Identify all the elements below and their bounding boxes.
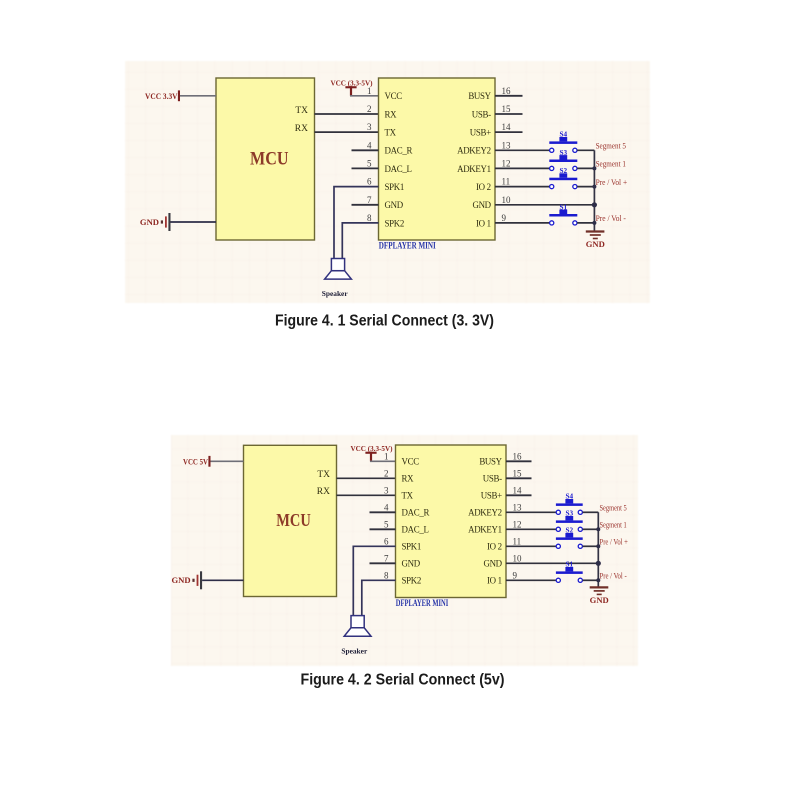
svg-text:GND: GND bbox=[402, 559, 421, 569]
stub wire DFPlayer pin 15 (figure 2) bbox=[506, 477, 532, 479]
pushbutton S1 (figure 2) bbox=[556, 567, 583, 582]
svg-text:ADKEY1: ADKEY1 bbox=[457, 164, 491, 174]
svg-text:15: 15 bbox=[502, 104, 512, 114]
wire pushbutton S1 to bus (figure 2) bbox=[583, 579, 599, 581]
svg-text:6: 6 bbox=[384, 536, 389, 546]
wire DFPlayer pin to pushbutton S1 (figure 1) bbox=[495, 222, 549, 224]
pushbutton S3 (figure 1) bbox=[549, 155, 577, 170]
svg-text:DFPLAYER MINI: DFPLAYER MINI bbox=[379, 241, 436, 251]
svg-text:5: 5 bbox=[384, 519, 389, 529]
svg-text:16: 16 bbox=[513, 451, 523, 461]
svg-text:9: 9 bbox=[513, 570, 518, 580]
schematic sheet background (figure 2) bbox=[171, 435, 638, 666]
wire SPK1 to speaker (figure 1) bbox=[334, 187, 379, 259]
stub wire DFPlayer pin 7 (figure 2) bbox=[370, 562, 396, 564]
DFPlayer Mini module block (figure 2) bbox=[396, 445, 507, 598]
svg-text:Pre / Vol -: Pre / Vol - bbox=[600, 572, 627, 581]
svg-text:8: 8 bbox=[384, 570, 389, 580]
svg-text:15: 15 bbox=[513, 468, 523, 478]
svg-text:ADKEY2: ADKEY2 bbox=[457, 146, 491, 156]
svg-text:IO 1: IO 1 bbox=[476, 218, 491, 228]
junction dot bus row pin 10 (figure 1) bbox=[592, 202, 597, 207]
stub wire DFPlayer pin 5 (figure 1) bbox=[352, 167, 379, 169]
svg-text:7: 7 bbox=[367, 195, 372, 205]
stub wire DFPlayer pin 4 (figure 2) bbox=[370, 511, 396, 513]
svg-text:MCU: MCU bbox=[250, 148, 289, 169]
svg-text:SPK2: SPK2 bbox=[385, 218, 405, 228]
wire pushbutton S2 to bus (figure 1) bbox=[577, 186, 594, 188]
svg-text:TX: TX bbox=[295, 106, 308, 116]
junction dot bus row pin 9 (figure 2) bbox=[596, 578, 600, 582]
svg-text:Speaker: Speaker bbox=[341, 646, 368, 655]
svg-text:GND: GND bbox=[483, 559, 502, 569]
wire SPK2 to speaker (figure 1) bbox=[342, 223, 378, 259]
wire pushbutton S1 to bus (figure 1) bbox=[577, 222, 594, 224]
svg-text:TX: TX bbox=[402, 491, 414, 501]
pushbutton S4 (figure 1) bbox=[549, 137, 577, 152]
svg-text:Segment 1: Segment 1 bbox=[600, 521, 627, 530]
svg-text:DAC_L: DAC_L bbox=[385, 164, 412, 174]
ground bus wire (figure 2) bbox=[597, 512, 599, 587]
svg-text:MCU: MCU bbox=[276, 510, 311, 530]
stub wire DFPlayer pin 14 (figure 2) bbox=[506, 494, 532, 496]
svg-text:TX: TX bbox=[385, 128, 397, 138]
wire MCU RX to DFPlayer pin 3 (figure 2) bbox=[337, 494, 396, 496]
wire MCU RX to DFPlayer pin 3 (figure 1) bbox=[315, 131, 379, 133]
svg-text:S4: S4 bbox=[566, 493, 574, 501]
svg-text:Speaker: Speaker bbox=[322, 289, 349, 298]
svg-text:S1: S1 bbox=[566, 561, 574, 569]
wire DFPlayer pin 10 GND to bus (figure 1) bbox=[495, 204, 594, 206]
svg-text:USB+: USB+ bbox=[481, 491, 502, 501]
svg-text:RX: RX bbox=[317, 487, 330, 497]
wire DFPlayer pin to pushbutton S2 (figure 1) bbox=[495, 186, 549, 188]
wire MCU TX to DFPlayer pin 2 (figure 2) bbox=[337, 477, 396, 479]
wire VCC to MCU (figure 1) bbox=[180, 95, 216, 97]
stub wire DFPlayer pin 4 (figure 1) bbox=[352, 149, 379, 151]
svg-text:RX: RX bbox=[385, 109, 398, 119]
svg-text:GND: GND bbox=[140, 217, 159, 227]
svg-text:VCC 3.3V: VCC 3.3V bbox=[145, 92, 178, 101]
wire SPK2 to speaker (figure 2) bbox=[362, 580, 396, 615]
wire VCC port to DFPlayer pin 1 (figure 1) bbox=[350, 95, 379, 97]
wire pushbutton S3 to bus (figure 2) bbox=[583, 528, 599, 530]
svg-text:VCC: VCC bbox=[402, 457, 420, 467]
ground symbol at bus (figure 2) bbox=[590, 587, 609, 594]
svg-text:3: 3 bbox=[367, 122, 372, 132]
svg-text:13: 13 bbox=[502, 140, 512, 150]
speaker LS (figure 1) bbox=[325, 259, 352, 280]
svg-text:GND: GND bbox=[171, 575, 190, 585]
svg-text:SPK2: SPK2 bbox=[402, 576, 422, 586]
svg-text:GND: GND bbox=[586, 239, 605, 249]
svg-text:S1: S1 bbox=[560, 203, 568, 211]
svg-text:Figure 4. 2 Serial Connect (5v: Figure 4. 2 Serial Connect (5v) bbox=[301, 671, 505, 688]
wire pushbutton S2 to bus (figure 2) bbox=[583, 545, 599, 547]
svg-text:11: 11 bbox=[513, 536, 522, 546]
junction dot bus row pin 11 (figure 2) bbox=[596, 544, 600, 548]
svg-text:S4: S4 bbox=[560, 131, 568, 139]
svg-text:1: 1 bbox=[367, 86, 372, 96]
svg-text:14: 14 bbox=[502, 122, 512, 132]
wire DFPlayer pin 10 GND to bus (figure 2) bbox=[506, 562, 598, 564]
ground bus wire (figure 1) bbox=[593, 150, 595, 231]
DFPlayer Mini module block (figure 1) bbox=[379, 78, 496, 240]
stub wire DFPlayer pin 15 (figure 1) bbox=[495, 113, 523, 115]
svg-text:IO 2: IO 2 bbox=[476, 182, 491, 192]
schematic sheet background (figure 1) bbox=[125, 61, 650, 303]
junction dot bus row pin 12 (figure 1) bbox=[592, 166, 596, 170]
wire GND to MCU (figure 2) bbox=[202, 579, 243, 581]
pushbutton S1 (figure 1) bbox=[549, 210, 577, 225]
wire DFPlayer pin to pushbutton S4 (figure 2) bbox=[506, 511, 556, 513]
svg-text:SPK1: SPK1 bbox=[402, 542, 422, 552]
svg-text:2: 2 bbox=[367, 104, 372, 114]
svg-text:S3: S3 bbox=[560, 149, 568, 157]
wire DFPlayer pin to pushbutton S3 (figure 1) bbox=[495, 167, 549, 169]
stub wire DFPlayer pin 16 (figure 2) bbox=[506, 460, 532, 462]
power port VCC (3.3-5V) (figure 2) bbox=[351, 444, 393, 461]
svg-text:Pre / Vol +: Pre / Vol + bbox=[596, 178, 628, 187]
svg-text:Segment 1: Segment 1 bbox=[596, 160, 626, 169]
svg-text:S2: S2 bbox=[566, 527, 574, 535]
junction dot bus row pin 9 (figure 1) bbox=[592, 221, 596, 225]
svg-text:ADKEY1: ADKEY1 bbox=[468, 525, 502, 535]
svg-text:ADKEY2: ADKEY2 bbox=[468, 508, 502, 518]
svg-text:BUSY: BUSY bbox=[468, 91, 491, 101]
svg-text:SPK1: SPK1 bbox=[385, 182, 405, 192]
MCU block (figure 1) bbox=[216, 78, 315, 240]
wire DFPlayer pin to pushbutton S1 (figure 2) bbox=[506, 579, 556, 581]
svg-text:13: 13 bbox=[513, 502, 523, 512]
power port GND at MCU (figure 1) bbox=[140, 213, 171, 231]
svg-text:USB-: USB- bbox=[472, 109, 491, 119]
svg-text:GND: GND bbox=[385, 200, 404, 210]
MCU block (figure 2) bbox=[244, 445, 337, 596]
svg-text:VCC 5V: VCC 5V bbox=[183, 458, 208, 467]
svg-text:4: 4 bbox=[384, 502, 389, 512]
svg-text:USB-: USB- bbox=[483, 474, 502, 484]
svg-text:11: 11 bbox=[502, 177, 511, 187]
svg-text:Segment 5: Segment 5 bbox=[596, 142, 626, 151]
svg-text:Segment 5: Segment 5 bbox=[600, 504, 627, 513]
svg-text:8: 8 bbox=[367, 213, 372, 223]
svg-text:DFPLAYER MINI: DFPLAYER MINI bbox=[396, 599, 449, 609]
power port GND at MCU (figure 2) bbox=[171, 571, 202, 589]
speaker LS (figure 2) bbox=[344, 616, 371, 637]
svg-text:5: 5 bbox=[367, 158, 372, 168]
svg-text:7: 7 bbox=[384, 553, 389, 563]
wire VCC to MCU (figure 2) bbox=[211, 460, 244, 462]
svg-text:2: 2 bbox=[384, 468, 389, 478]
wire DFPlayer pin to pushbutton S4 (figure 1) bbox=[495, 149, 549, 151]
wire pushbutton S4 to bus (figure 2) bbox=[583, 511, 599, 513]
svg-text:9: 9 bbox=[502, 213, 507, 223]
wire DFPlayer pin to pushbutton S2 (figure 2) bbox=[506, 545, 556, 547]
wire DFPlayer pin to pushbutton S3 (figure 2) bbox=[506, 528, 556, 530]
svg-text:GND: GND bbox=[590, 595, 609, 605]
pushbutton S4 (figure 2) bbox=[556, 499, 583, 514]
pushbutton S3 (figure 2) bbox=[556, 516, 583, 531]
svg-text:Figure 4. 1 Serial Connect (3.: Figure 4. 1 Serial Connect (3. 3V) bbox=[275, 312, 494, 329]
svg-text:IO 2: IO 2 bbox=[487, 542, 502, 552]
power port VCC 5V (figure 2) bbox=[183, 456, 211, 467]
svg-text:4: 4 bbox=[367, 140, 372, 150]
svg-text:USB+: USB+ bbox=[470, 128, 491, 138]
svg-text:S3: S3 bbox=[566, 510, 574, 518]
svg-text:Pre / Vol -: Pre / Vol - bbox=[596, 214, 626, 223]
wire SPK1 to speaker (figure 2) bbox=[353, 546, 395, 615]
svg-text:14: 14 bbox=[513, 485, 523, 495]
stub wire DFPlayer pin 7 (figure 1) bbox=[352, 204, 379, 206]
svg-text:TX: TX bbox=[317, 470, 330, 480]
power port VCC 3.3V (figure 1) bbox=[145, 90, 180, 101]
svg-text:12: 12 bbox=[513, 519, 522, 529]
junction dot bus row pin 11 (figure 1) bbox=[592, 185, 596, 189]
ground symbol at bus (figure 1) bbox=[586, 232, 605, 239]
stub wire DFPlayer pin 5 (figure 2) bbox=[370, 528, 396, 530]
stub wire DFPlayer pin 16 (figure 1) bbox=[495, 95, 523, 97]
svg-text:Pre / Vol +: Pre / Vol + bbox=[600, 538, 629, 547]
wire VCC port to DFPlayer pin 1 (figure 2) bbox=[370, 460, 396, 462]
svg-text:GND: GND bbox=[472, 200, 491, 210]
wire pushbutton S4 to bus (figure 1) bbox=[577, 149, 594, 151]
junction dot bus row pin 10 (figure 2) bbox=[596, 561, 601, 566]
svg-text:10: 10 bbox=[513, 553, 523, 563]
svg-text:1: 1 bbox=[384, 451, 389, 461]
wire pushbutton S3 to bus (figure 1) bbox=[577, 167, 594, 169]
svg-text:RX: RX bbox=[295, 124, 308, 134]
svg-text:12: 12 bbox=[502, 158, 511, 168]
svg-text:VCC: VCC bbox=[385, 91, 403, 101]
junction dot bus row pin 12 (figure 2) bbox=[596, 527, 600, 531]
svg-text:16: 16 bbox=[502, 86, 512, 96]
wire MCU TX to DFPlayer pin 2 (figure 1) bbox=[315, 113, 379, 115]
pushbutton S2 (figure 1) bbox=[549, 173, 577, 188]
svg-text:10: 10 bbox=[502, 195, 512, 205]
power port VCC (3.3-5V) (figure 1) bbox=[331, 78, 373, 95]
pushbutton S2 (figure 2) bbox=[556, 533, 583, 548]
svg-text:BUSY: BUSY bbox=[479, 457, 502, 467]
svg-text:3: 3 bbox=[384, 485, 389, 495]
wire GND to MCU (figure 1) bbox=[171, 221, 217, 223]
svg-text:DAC_L: DAC_L bbox=[402, 525, 429, 535]
svg-text:6: 6 bbox=[367, 177, 372, 187]
stub wire DFPlayer pin 14 (figure 1) bbox=[495, 131, 523, 133]
svg-text:RX: RX bbox=[402, 474, 415, 484]
svg-text:S2: S2 bbox=[560, 167, 568, 175]
svg-text:DAC_R: DAC_R bbox=[402, 508, 430, 518]
svg-text:IO 1: IO 1 bbox=[487, 576, 502, 586]
svg-text:DAC_R: DAC_R bbox=[385, 146, 413, 156]
